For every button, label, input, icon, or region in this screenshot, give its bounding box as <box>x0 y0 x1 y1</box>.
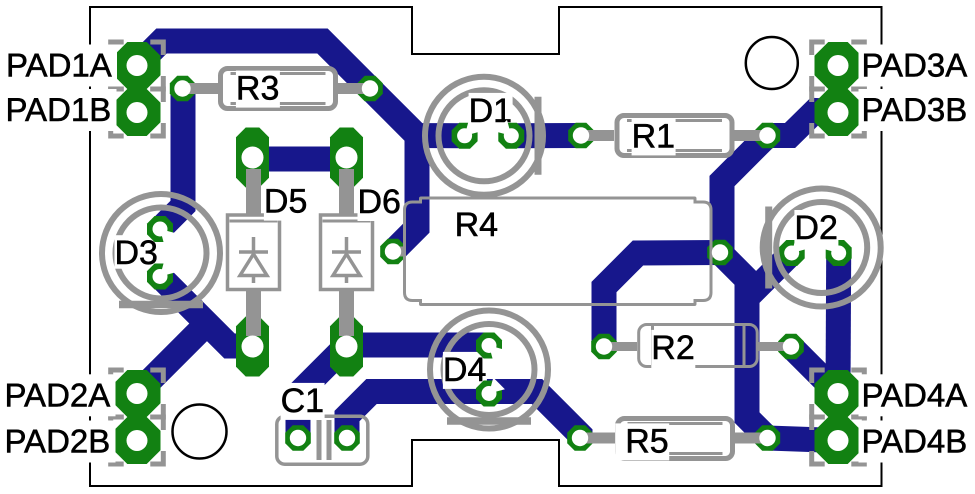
svg-text:D3: D3 <box>115 234 158 272</box>
label D6 <box>358 184 402 221</box>
pad R5 right <box>755 425 780 451</box>
svg-text:PAD2B: PAD2B <box>5 423 111 460</box>
wire branch to R4 left pad <box>393 136 417 252</box>
hole D2 right <box>831 246 846 261</box>
hole R2 right <box>783 338 799 354</box>
hole D5 top <box>242 147 264 169</box>
pad D5 bottom <box>236 317 269 377</box>
wire D5 top to D6 top <box>253 147 347 172</box>
hole R1 right <box>759 127 775 143</box>
pad D3 top <box>147 216 173 242</box>
hole D6 top <box>336 147 358 169</box>
pad D2 right <box>826 240 852 266</box>
label R3 <box>236 71 280 108</box>
label R2 <box>651 330 695 370</box>
hole D2 left <box>784 246 799 261</box>
label pad label PAD1A <box>3 45 117 87</box>
pad PAD3A <box>815 42 862 89</box>
wire R2 left to R4 right pad <box>604 253 720 347</box>
wire R4 right pad join vertical <box>720 253 747 303</box>
hole R3 right <box>362 80 378 96</box>
hole PAD3B <box>828 102 849 123</box>
hole D5 bottom <box>242 336 264 358</box>
pad D5 top <box>236 128 269 188</box>
pad D3 bottom <box>147 264 173 290</box>
lead R5 right <box>733 433 768 444</box>
hole R5 right <box>759 430 775 446</box>
wire PAD1A to R3 to D1 left <box>137 41 465 136</box>
wire D2 right to PAD4A <box>826 253 852 394</box>
hole D6 bottom <box>336 336 358 358</box>
svg-text:R1: R1 <box>632 117 675 155</box>
lead R3 right <box>336 83 371 94</box>
silkscreen bracket PAD3B <box>812 89 825 102</box>
label pad label PAD2A <box>2 374 116 416</box>
wire R1 right to R4 right pad <box>722 136 768 253</box>
hole D1 left <box>457 128 472 143</box>
hole C1 left <box>290 430 306 446</box>
label D1 <box>469 93 513 124</box>
lead R1 right <box>732 130 768 141</box>
hole D3 top <box>153 222 168 237</box>
pad R4 right <box>707 240 733 265</box>
hole R4 right <box>712 244 728 260</box>
pad R3 left <box>170 76 195 101</box>
label R1 <box>632 118 676 155</box>
pad C1 left <box>285 425 311 451</box>
pad D4 bottom <box>476 381 502 407</box>
svg-text:PAD2A: PAD2A <box>5 376 111 413</box>
hole C1 right <box>339 430 355 446</box>
pad D1 left <box>452 123 478 149</box>
silkscreen bracket PAD4A <box>812 370 825 383</box>
svg-text:R2: R2 <box>651 329 694 367</box>
pad C1 right <box>334 425 360 451</box>
diode D5 body <box>228 215 280 290</box>
svg-text:D4: D4 <box>443 351 486 389</box>
label pad label PAD4A <box>859 374 973 416</box>
silkscreen bracket PAD3A <box>812 42 825 55</box>
svg-text:D2: D2 <box>794 209 837 247</box>
resistor R5 body <box>618 419 733 459</box>
wire R3 left pad to D3 top pad <box>160 89 183 230</box>
lead R4 left <box>393 247 405 257</box>
wire R2 right to PAD4A <box>791 347 838 394</box>
hole R1 left <box>573 127 589 143</box>
hole PAD1A <box>127 55 148 76</box>
svg-text:PAD1A: PAD1A <box>6 47 112 84</box>
label D2 <box>794 210 838 247</box>
diode D6 body <box>321 215 373 290</box>
svg-text:R5: R5 <box>625 422 668 460</box>
pad PAD4A <box>815 370 862 417</box>
hole PAD3A <box>828 55 849 76</box>
lead R2 right <box>759 342 792 351</box>
pad R5 left <box>567 425 593 451</box>
lead R2 left <box>604 342 637 351</box>
label pad label PAD3A <box>859 45 973 87</box>
pad R4 left <box>380 239 406 264</box>
resistor R3 body <box>221 69 336 109</box>
label D3 <box>115 235 159 269</box>
hole R2 left <box>596 338 612 354</box>
wire D2 left down to R5 right <box>747 253 792 438</box>
silkscreen bracket PAD1B <box>111 89 124 102</box>
svg-text:D5: D5 <box>264 183 307 221</box>
pad PAD3B <box>815 89 862 136</box>
label pad label PAD4B <box>859 421 973 463</box>
hole R3 left <box>174 80 190 96</box>
lead R4 right <box>711 248 720 258</box>
label pad label PAD3B <box>859 89 973 131</box>
pad R1 right <box>755 123 780 148</box>
wire C1 right to D4 bottom to R5 left <box>347 392 580 439</box>
svg-text:PAD1B: PAD1B <box>6 91 112 128</box>
pad PAD1A <box>114 42 161 89</box>
svg-text:D6: D6 <box>358 183 401 221</box>
svg-text:PAD4A: PAD4A <box>862 376 968 413</box>
label D4 <box>443 352 487 389</box>
label R5 <box>615 423 669 460</box>
hole D3 bottom <box>153 269 168 284</box>
lead R1 left <box>581 130 614 141</box>
hole D1 right <box>504 128 519 143</box>
pad D2 left <box>779 240 805 266</box>
wire D6 bottom to C1 left <box>298 346 347 439</box>
hole D4 top <box>482 338 497 353</box>
label C1 <box>281 383 325 420</box>
wire PAD2A diagonal <box>137 317 214 394</box>
hole R4 left <box>385 243 401 259</box>
pad D1 right <box>498 123 524 149</box>
hole D4 bottom <box>482 386 497 401</box>
hole PAD2B <box>127 430 148 451</box>
svg-text:C1: C1 <box>281 382 324 420</box>
hole PAD4A <box>828 383 849 404</box>
svg-text:PAD3A: PAD3A <box>862 47 968 84</box>
hole PAD2A <box>127 383 148 404</box>
silkscreen bracket PAD1A <box>111 42 124 55</box>
diode D3 can outline <box>102 194 220 312</box>
silkscreen bracket PAD4B <box>812 417 825 430</box>
svg-text:PAD3B: PAD3B <box>862 91 968 128</box>
lead R3 left <box>183 83 219 94</box>
hole R5 left <box>572 430 588 446</box>
diode D4 can outline <box>430 311 548 429</box>
silkscreen bracket PAD2A <box>111 370 124 383</box>
wire D3 bottom pad to D5 bottom pad <box>160 277 253 347</box>
label pad label PAD1B <box>3 89 117 131</box>
mounting hole bottom-left <box>173 405 227 459</box>
pad D4 top <box>476 333 502 359</box>
mounting hole top-right <box>746 37 798 89</box>
diode D2 can outline <box>763 189 881 307</box>
resistor R1 body <box>617 116 732 156</box>
pad R1 left <box>568 123 594 148</box>
pad D6 bottom <box>330 317 363 377</box>
label D5 <box>264 184 308 221</box>
pad PAD2B <box>114 417 161 464</box>
board outline <box>90 7 882 486</box>
wire R1 right to PAD3B <box>768 111 839 136</box>
lead R5 left <box>580 433 615 444</box>
hole PAD1B <box>127 102 148 123</box>
wire D6 bottom to D4 top <box>347 333 490 358</box>
silkscreen bracket PAD2B <box>111 417 124 430</box>
pad R2 left <box>591 334 617 359</box>
pad PAD2A <box>114 370 161 417</box>
wire D1 right to R1 left <box>511 123 581 148</box>
svg-text:PAD4B: PAD4B <box>862 423 968 460</box>
label R4 <box>455 207 499 244</box>
pad D6 top <box>330 128 363 188</box>
pad R3 right <box>357 76 383 101</box>
diode D1 can outline <box>425 77 543 195</box>
wire R5 right to PAD4B <box>768 438 839 441</box>
pad R2 right <box>778 334 804 359</box>
label pad label PAD2B <box>2 421 116 463</box>
pad PAD1B <box>114 89 161 136</box>
resistor R2 body <box>639 325 758 367</box>
svg-text:R3: R3 <box>236 70 279 108</box>
resistor R4 body <box>405 198 712 305</box>
svg-text:R4: R4 <box>455 206 498 244</box>
capacitor C1 body <box>277 416 368 464</box>
pad PAD4B <box>815 417 862 464</box>
hole PAD4B <box>828 430 849 451</box>
